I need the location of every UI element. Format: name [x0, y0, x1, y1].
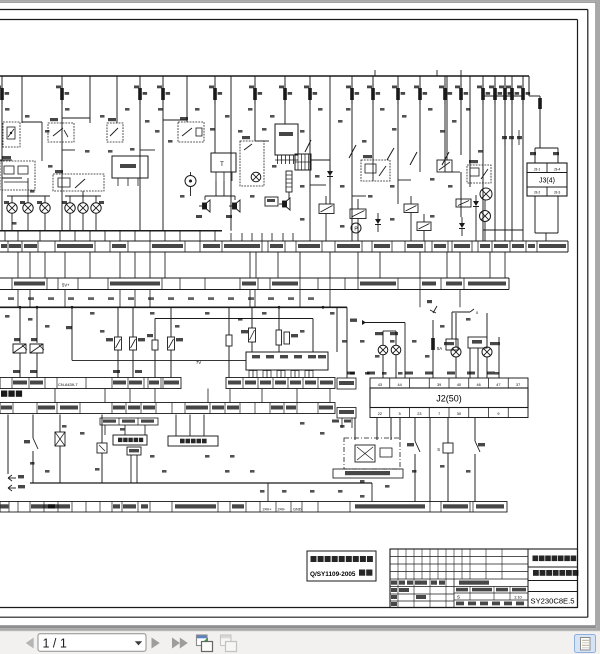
toolbar prev-page arrow disabled	[26, 638, 34, 649]
svg-text:43: 43	[378, 383, 382, 387]
wire to 0 arrow	[452, 309, 479, 339]
relay K4 dashed wide	[53, 170, 104, 191]
ticks between row A and row B	[55, 389, 330, 403]
fuse F07 at x=285	[279, 84, 292, 104]
relay K5 dashed	[178, 117, 204, 142]
wire W19	[444, 76, 446, 160]
rail junction dots	[19, 306, 325, 309]
wire from row B x8	[7, 415, 9, 475]
viewer toolbar	[0, 631, 600, 654]
fuse F08 at x=310	[304, 84, 317, 104]
lamp HL8	[480, 200, 491, 241]
title block	[390, 549, 578, 608]
wire number labels 41 42 43	[502, 136, 507, 139]
buzzer HA1	[265, 197, 290, 210]
svg-text:S: S	[437, 447, 440, 452]
svg-text:37: 37	[516, 383, 520, 387]
svg-text:1 / 1: 1 / 1	[43, 637, 67, 651]
lower text strip box	[333, 469, 403, 478]
box top feed wires	[336, 307, 338, 352]
timer box T	[211, 153, 236, 196]
fuse F16 at x=495	[489, 84, 502, 104]
bus riser stubs	[374, 70, 376, 76]
svg-text:47: 47	[496, 383, 500, 387]
mid power bus heavy	[0, 306, 347, 308]
lamp HL12	[390, 331, 401, 378]
fuse F15 at x=483	[477, 84, 490, 104]
wire W09	[214, 76, 216, 153]
svg-text:5A: 5A	[437, 346, 442, 351]
page right edge border	[595, 2, 597, 625]
short bus under J3	[535, 232, 558, 234]
lower ground bus	[30, 482, 372, 484]
svg-text:S: S	[457, 595, 460, 600]
svg-text:24V+: 24V+	[263, 508, 273, 512]
svg-text:T: T	[220, 162, 224, 168]
lamp HL1	[7, 203, 17, 213]
svg-text:J3-3: J3-3	[554, 191, 561, 195]
fuse F14 at x=461	[455, 84, 468, 104]
fuse F04 at x=163	[157, 84, 170, 104]
viewer canvas gray - top strip	[0, 0, 600, 2]
bus corner drop at x=529	[528, 76, 530, 96]
connector J2(50)	[370, 378, 528, 418]
component R lower	[97, 415, 107, 484]
standard note box	[307, 551, 376, 581]
svg-text:5V+: 5V+	[62, 283, 70, 288]
relay coil K8	[319, 204, 334, 214]
sensor block cells	[100, 418, 158, 483]
lamp HL9	[444, 313, 461, 378]
svg-text:7V: 7V	[196, 360, 201, 365]
relay K2 dashed	[48, 118, 74, 142]
fuse F10 at x=373	[367, 84, 380, 104]
wire W18	[419, 76, 421, 152]
lamp HL7	[480, 76, 492, 200]
transistor Q1	[13, 307, 27, 377]
control unit box U1	[112, 156, 148, 186]
fuse F18 at x=512	[506, 84, 519, 104]
fuse F19 at x=523	[517, 84, 530, 104]
wiper relay dashed with lamp	[240, 136, 264, 186]
lamp HL4	[65, 203, 75, 213]
sensor feed wire S0	[66, 307, 72, 360]
controller terminal row A mid strip	[226, 378, 335, 389]
transistor Q2	[30, 307, 44, 377]
wire W12	[284, 76, 286, 124]
terminal strip row 2	[0, 278, 509, 290]
relay K3 dashed	[107, 118, 123, 142]
resistor RV0	[226, 307, 232, 377]
toolbar next-page arrow	[152, 638, 160, 649]
svg-text:J2(50): J2(50)	[436, 394, 462, 404]
labels 41 arrow	[350, 319, 405, 379]
small box B7	[446, 339, 458, 350]
fuse F03 at x=140	[134, 84, 147, 104]
lamp HL10	[482, 313, 500, 378]
lamp HL6	[91, 203, 101, 213]
switch S2	[349, 145, 356, 158]
cell XM6.4 left of J2	[337, 378, 356, 389]
wire W17	[397, 76, 399, 160]
J3 top wires	[534, 148, 536, 163]
fuse F09 at x=352	[346, 84, 359, 104]
lamp HL5	[78, 203, 88, 213]
horn B1	[196, 196, 210, 218]
controller terminal row A left strip	[0, 370, 181, 389]
sensor Y05	[147, 319, 158, 378]
fuse F20 feed	[529, 96, 558, 148]
fuse S with 5A	[427, 300, 442, 378]
wire W20	[460, 76, 462, 155]
wire W24	[504, 76, 506, 241]
wire W16	[372, 76, 374, 160]
svg-text:24V-: 24V-	[278, 508, 287, 512]
J3 bottom wires to bus	[534, 196, 536, 233]
wire number labels above rail	[8, 297, 314, 300]
relay coil K9	[350, 209, 366, 219]
svg-text:7: 7	[438, 412, 440, 416]
sidebar toggle icon highlighted	[575, 635, 596, 653]
connector J3(4)	[527, 163, 567, 196]
wire W22	[482, 76, 484, 241]
relay coil K11	[417, 222, 431, 231]
box B8	[468, 337, 499, 378]
box S small	[437, 418, 453, 502]
dash-dot box lower	[344, 438, 400, 469]
relay K6 dashed	[361, 155, 390, 181]
wire W23	[494, 76, 496, 241]
controller terminal row B strip	[0, 403, 335, 414]
labels above J2 pins	[347, 372, 495, 375]
svg-text:5: 5	[399, 412, 401, 416]
terminal strip row 1	[0, 241, 568, 252]
main power bus 24V top	[0, 75, 529, 77]
ticks row1-row2	[18, 252, 505, 278]
svg-text:J3(4): J3(4)	[539, 178, 555, 185]
toolbar last-page arrow	[172, 638, 180, 649]
wire W26	[522, 76, 524, 241]
svg-text:Q/SY1109-2005: Q/SY1109-2005	[310, 571, 356, 578]
wire W10	[230, 76, 232, 231]
wire W14	[329, 76, 331, 204]
valve Y2	[456, 199, 471, 207]
switch S5	[442, 152, 449, 165]
fuse F06 at x=255	[249, 84, 262, 104]
switch S3	[387, 148, 394, 160]
arrows B C2	[8, 475, 25, 491]
svg-text:23: 23	[417, 412, 421, 416]
switch S1	[305, 140, 311, 152]
wires mid-right	[446, 76, 448, 160]
relay coil K10	[404, 204, 418, 213]
toolbar icon open-new-window disabled	[221, 635, 237, 652]
wire W07	[162, 76, 164, 231]
toolbar page field	[38, 634, 146, 651]
wire W08	[186, 76, 188, 122]
lamp group link wires	[7, 195, 50, 197]
bus drops to bottom row	[267, 483, 269, 502]
diode V4	[473, 195, 479, 213]
link bus horns	[205, 195, 235, 197]
diode V2	[375, 213, 381, 232]
junction ticks to terminal table	[5, 231, 293, 241]
lamp HL11	[375, 331, 388, 378]
motor M1	[185, 172, 196, 196]
wire W04	[89, 76, 91, 123]
resistor RV6	[168, 307, 184, 377]
wire W02	[21, 76, 23, 123]
valve Y1	[437, 160, 452, 172]
lamp pair feed	[383, 330, 396, 332]
horn B2	[226, 196, 240, 218]
cell XM5.1 left of J2	[332, 408, 356, 429]
controller interface box	[196, 352, 328, 378]
svg-text:1:10: 1:10	[514, 595, 523, 600]
fuse F17 at x=505	[499, 84, 512, 104]
fuse F05 at x=215	[209, 84, 222, 104]
toolbar icon open-new-window	[197, 635, 213, 652]
svg-text:GND: GND	[293, 508, 302, 512]
wire W01	[1, 76, 3, 231]
wire W06	[139, 76, 141, 231]
comb connector XT1	[295, 154, 311, 170]
svg-text:CN-6439-7: CN-6439-7	[58, 382, 78, 387]
page bottom edge + shadow band	[0, 625, 596, 628]
CAN interface box	[168, 415, 218, 447]
svg-text:30: 30	[457, 412, 461, 416]
wire W03	[61, 76, 63, 231]
wire W15	[351, 76, 353, 241]
fuse F01 at x=2	[0, 84, 9, 104]
relay K7 dashed	[467, 160, 491, 183]
scattered wire labels mid and lower section	[5, 312, 500, 498]
pressure switch SP1	[351, 223, 361, 233]
branch wire to controller box	[72, 359, 246, 361]
wire 430	[429, 418, 431, 502]
fuse F13 at x=445	[439, 84, 452, 104]
flasher unit dashed	[0, 156, 35, 190]
wire W11	[254, 76, 256, 141]
resistor RV1	[106, 307, 122, 377]
svg-text:44: 44	[398, 383, 402, 387]
page field dropdown arrow	[135, 641, 142, 645]
resistor RV2	[130, 307, 146, 377]
regulator box U2 with pins	[275, 124, 298, 164]
rail corner drop to J2	[346, 307, 348, 378]
lower distribution bus left	[0, 230, 222, 232]
fuse F02 at x=62	[56, 84, 69, 104]
switch S8 lower	[24, 415, 38, 484]
svg-text:J3-1: J3-1	[534, 168, 541, 172]
extra link wires top section	[22, 96, 523, 204]
fuse F12 at x=420	[414, 84, 427, 104]
switch S09	[407, 418, 420, 502]
wire W25	[511, 76, 513, 241]
svg-text:J3-4: J3-4	[554, 168, 561, 172]
switch S07	[475, 418, 485, 502]
component X2 lower	[55, 415, 65, 484]
wire W13	[309, 76, 311, 241]
svg-text:22: 22	[378, 412, 382, 416]
wire W05	[116, 76, 118, 123]
relay K1 dashed	[3, 122, 20, 147]
lamp HL2	[23, 203, 33, 213]
sensor C4B pair	[276, 307, 298, 352]
diode V1	[327, 165, 333, 185]
wire W21	[469, 76, 471, 187]
switch S4	[410, 152, 417, 165]
svg-text:40: 40	[457, 383, 461, 387]
resistor RV8	[241, 307, 256, 352]
svg-text:J3-2: J3-2	[534, 191, 541, 195]
viewer canvas gray - right strip	[596, 0, 600, 630]
lower right wires from J2	[355, 418, 400, 440]
fuse F11 at x=398	[392, 84, 405, 104]
extra short link wires top density	[0, 96, 523, 230]
scattered wire labels top section	[5, 108, 483, 228]
lamp HL3	[40, 203, 50, 213]
svg-text:46: 46	[477, 383, 481, 387]
bottom terminal strip	[0, 502, 507, 513]
coil L1	[286, 171, 292, 199]
page top edge border	[0, 1, 596, 3]
svg-text:9: 9	[497, 412, 499, 416]
svg-text:SY230C8E.5: SY230C8E.5	[531, 597, 575, 606]
controller label	[1, 391, 7, 397]
diode V3	[459, 217, 465, 236]
ticks row2 to bus	[18, 290, 460, 308]
svg-text:39: 39	[437, 383, 441, 387]
